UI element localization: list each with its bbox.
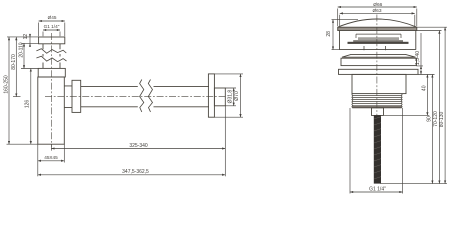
svg-text:80-170: 80-170	[11, 54, 17, 70]
svg-text:126: 126	[25, 100, 31, 109]
svg-text:Ø31,8: Ø31,8	[227, 90, 233, 104]
svg-text:1,5-40: 1,5-40	[415, 51, 421, 65]
svg-text:Ø45: Ø45	[48, 15, 57, 20]
svg-text:12: 12	[23, 34, 29, 40]
svg-text:90: 90	[427, 116, 433, 122]
svg-text:Ø70: Ø70	[234, 91, 240, 101]
svg-text:20-110: 20-110	[18, 42, 24, 57]
svg-text:160-250: 160-250	[4, 75, 10, 94]
svg-text:325-340: 325-340	[129, 143, 148, 149]
svg-text:Ø66: Ø66	[373, 2, 382, 8]
svg-text:347,5-362,5: 347,5-362,5	[122, 169, 149, 175]
svg-text:G1 1/4": G1 1/4"	[369, 187, 386, 193]
svg-text:Ø63: Ø63	[372, 8, 381, 14]
svg-text:80-130: 80-130	[439, 112, 445, 128]
svg-text:G1 1/4": G1 1/4"	[44, 24, 60, 29]
svg-text:40: 40	[421, 85, 427, 91]
svg-text:28: 28	[326, 31, 332, 37]
svg-text:45X45: 45X45	[44, 155, 58, 160]
